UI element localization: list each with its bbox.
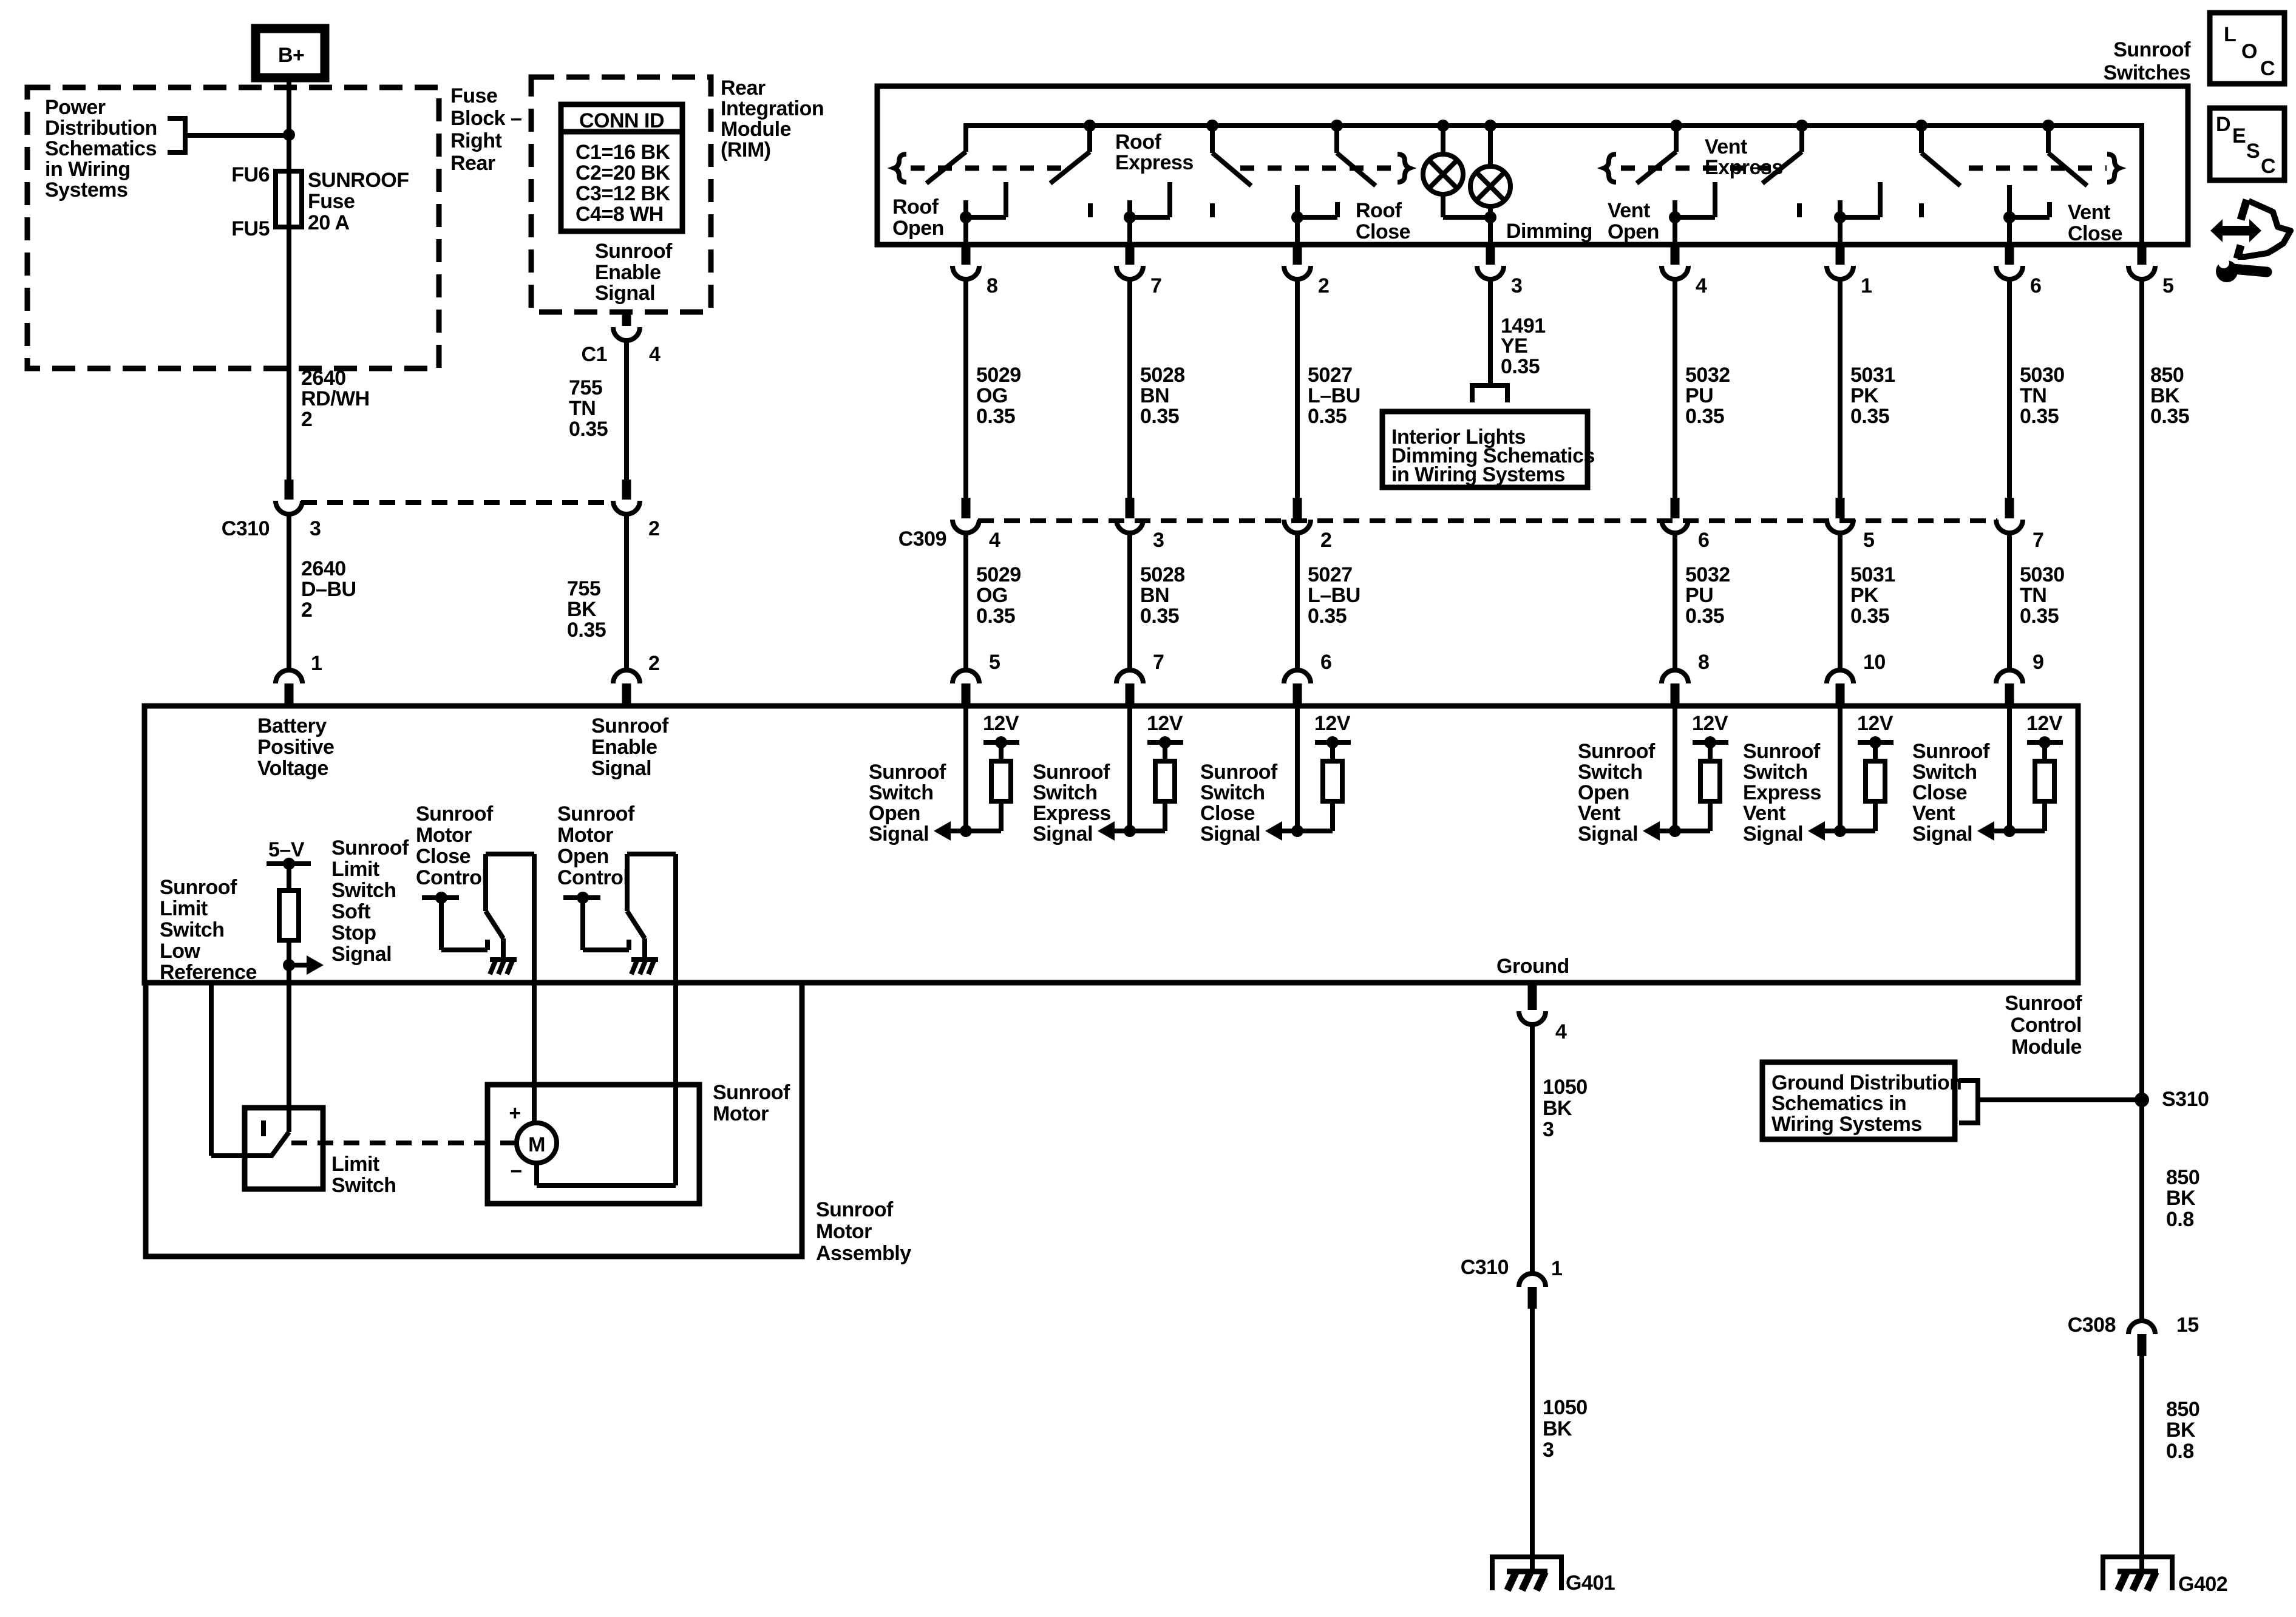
wire label 5032 PU 0.35 (lower) [1685, 563, 1730, 628]
svg-text:OG: OG [976, 584, 1008, 607]
contact Vent Open [1669, 182, 1715, 223]
pin number 5 below switch box [2162, 274, 2173, 297]
wire 2640 battery feed from B+ through fuse [287, 78, 291, 480]
junction dot Sunroof Switch Close Vent Signal [2003, 825, 2016, 837]
svg-text:Dimming: Dimming [1506, 220, 1592, 243]
svg-text:1: 1 [1551, 1257, 1562, 1280]
label Vent Open [1608, 199, 1659, 243]
pin number 2 at module enable input [648, 652, 659, 675]
connector sunroof switches pin 6 [1996, 245, 2023, 279]
5V rail [267, 858, 311, 890]
svg-text:3: 3 [310, 517, 321, 540]
label C310 [222, 517, 270, 540]
svg-text:in Wiring: in Wiring [45, 158, 131, 181]
svg-text:FU6: FU6 [231, 163, 270, 186]
connector C310 pin 3 [276, 480, 302, 514]
label 12V pull-up for Sunroof Switch Open Signal [983, 712, 1019, 735]
svg-text:Limit: Limit [331, 1153, 379, 1176]
svg-text:Enable: Enable [591, 736, 657, 759]
label Sunroof Switch Close Vent Signal [1912, 740, 1990, 846]
label C310 ground [1461, 1256, 1509, 1279]
label SUNROOF Fuse 20 A [308, 169, 409, 234]
wire to dimming lamp1 [1441, 126, 1445, 155]
svg-text:BN: BN [1140, 384, 1169, 407]
pin number 7 at C309 [2033, 529, 2043, 552]
contact Roof Express [1124, 182, 1170, 223]
pin number 5 at C309 [1863, 529, 1874, 552]
resistor pull-up for Sunroof Switch Close Signal [1323, 761, 1342, 801]
junction dot lamp2 tap [1484, 120, 1496, 132]
svg-text:Fuse: Fuse [450, 84, 497, 107]
svg-text:0.35: 0.35 [976, 605, 1015, 628]
svg-text:Signal: Signal [331, 943, 392, 966]
connector C310 pin 2 (755 wire) [613, 480, 640, 514]
wire 850 BK S310 to C308 [2139, 1100, 2144, 1320]
connector C309 pin 6 [1662, 498, 1688, 533]
svg-text:Limit: Limit [160, 897, 208, 920]
svg-text:0.8: 0.8 [2166, 1208, 2194, 1231]
connector module pin 10 [1827, 670, 1853, 706]
svg-text:6: 6 [1320, 651, 1331, 674]
svg-text:6: 6 [1698, 529, 1709, 552]
svg-text:8: 8 [987, 274, 997, 297]
resistor limit switch pull-up [279, 890, 299, 940]
wire label 2640 D-BU 2 [301, 557, 356, 622]
svg-text:2: 2 [301, 408, 312, 431]
pin number 9 at module [2033, 651, 2043, 674]
svg-text:Signal: Signal [595, 282, 655, 305]
wire soft stop to limit switch [287, 983, 291, 1132]
bracket ground distribution to S310 [1959, 1080, 2136, 1123]
svg-text:Right: Right [450, 129, 502, 152]
LOC reference box [2210, 13, 2284, 84]
svg-text:Close: Close [416, 845, 470, 868]
label Vent Express [1705, 135, 1783, 179]
svg-text:Power: Power [45, 96, 106, 119]
svg-text:Rear: Rear [450, 152, 495, 175]
svg-text:G401: G401 [1566, 1571, 1615, 1595]
12V rail for Sunroof Switch Open Vent Signal [1693, 736, 1728, 761]
svg-text:Express: Express [1743, 781, 1821, 804]
bracket to Power Distribution note [168, 118, 289, 152]
wire below lamp2 [1488, 205, 1493, 245]
driver Sunroof Motor Close Control [422, 854, 534, 958]
wire resistor to junction for Sunroof Switch Express Vent Signal [1825, 801, 1875, 831]
connector C309 pin 5 [1827, 498, 1853, 533]
svg-text:PU: PU [1685, 384, 1713, 407]
svg-text:755: 755 [569, 376, 602, 399]
ground G402 [2103, 1557, 2172, 1590]
12V rail for Sunroof Switch Express Vent Signal [1858, 736, 1894, 761]
connector module pin 5 [953, 670, 979, 706]
label plus [509, 1102, 520, 1125]
svg-text:Vent: Vent [1743, 802, 1785, 825]
svg-text:Vent: Vent [1578, 802, 1620, 825]
svg-text:Low: Low [160, 940, 201, 963]
svg-text:Systems: Systems [45, 178, 127, 202]
svg-text:O: O [2241, 40, 2257, 63]
wire Roof Close output inside box [1295, 217, 1300, 245]
label Sunroof Switch Express Vent Signal [1743, 740, 1821, 846]
svg-text:Sunroof: Sunroof [1912, 740, 1990, 763]
svg-text:5027: 5027 [1308, 364, 1353, 387]
svg-text:PK: PK [1850, 384, 1879, 407]
box Limit Switch [245, 1108, 323, 1189]
svg-text:Sunroof: Sunroof [1743, 740, 1821, 763]
connector sunroof switches pin 1 [1827, 245, 1853, 279]
svg-text:0.35: 0.35 [567, 619, 606, 642]
label Sunroof Switch Express Signal [1033, 761, 1111, 846]
motor M [517, 1123, 557, 1163]
svg-text:Sunroof: Sunroof [557, 802, 635, 825]
12V rail for Sunroof Switch Close Vent Signal [2027, 736, 2063, 761]
pin number 4 below switch box [1696, 274, 1707, 297]
svg-text:5032: 5032 [1685, 563, 1730, 586]
svg-text:12V: 12V [2026, 712, 2063, 735]
svg-text:Integration: Integration [721, 97, 824, 120]
wire resistor to junction for Sunroof Switch Close Signal [1282, 801, 1333, 831]
wire Vent Close output inside box [2007, 217, 2012, 245]
ground symbol motor close driver [490, 960, 517, 974]
svg-text:SUNROOF: SUNROOF [308, 169, 409, 192]
svg-text:4: 4 [1555, 1020, 1567, 1043]
pin number 4 at C309 [989, 529, 1000, 552]
svg-text:0.35: 0.35 [976, 405, 1015, 428]
svg-text:Switches: Switches [2104, 61, 2190, 84]
svg-text:Switch: Switch [160, 918, 225, 941]
svg-text:Ground Distribution: Ground Distribution [1771, 1071, 1961, 1094]
svg-text:Control: Control [416, 866, 487, 889]
svg-text:OG: OG [976, 384, 1008, 407]
arrow Sunroof Switch Open Signal [934, 821, 951, 841]
svg-text:5032: 5032 [1685, 364, 1730, 387]
svg-text:2: 2 [648, 652, 659, 675]
svg-text:5: 5 [989, 651, 1000, 674]
junction dot second Vent Close pivot [2042, 120, 2054, 132]
label Power Distribution Schematics in Wiring Systems [45, 96, 157, 202]
wire to dimming lamp2 [1488, 126, 1493, 168]
label C309 [898, 527, 946, 551]
dashed line connector row C309 [978, 518, 1997, 523]
svg-text:2: 2 [301, 598, 312, 622]
wire label 5030 TN 0.35 (upper) [2020, 364, 2065, 428]
label Roof Open [892, 195, 944, 240]
pin number 8 at module [1698, 651, 1709, 674]
svg-text:Open: Open [557, 845, 609, 868]
wire 850 BK C308 to G402 [2139, 1356, 2144, 1571]
dashed coupling line roof switches [911, 166, 1394, 171]
svg-text:Wiring Systems: Wiring Systems [1771, 1113, 1922, 1136]
svg-text:C3=12 BK: C3=12 BK [576, 182, 671, 205]
svg-text:4: 4 [1696, 274, 1707, 297]
svg-text:Module: Module [721, 118, 791, 141]
svg-text:Sunroof: Sunroof [331, 836, 409, 859]
svg-text:0.35: 0.35 [1501, 355, 1540, 378]
label Vent Close [2068, 201, 2122, 245]
pin number 6 below switch box [2030, 274, 2041, 297]
box Sunroof Control Module [144, 706, 2078, 983]
junction on battery feed wire [283, 129, 295, 141]
junction dot lamp1 tap [1437, 120, 1449, 132]
svg-text:Voltage: Voltage [257, 757, 328, 780]
label Sunroof Control Module [2005, 992, 2082, 1059]
wire 5028 BN segment to C309 [1127, 280, 1132, 498]
tick vent express position [1797, 203, 1802, 217]
svg-text:C: C [2261, 155, 2275, 178]
svg-text:Enable: Enable [595, 261, 661, 284]
svg-text:Signal: Signal [1200, 822, 1260, 846]
pin number 5 at module [989, 651, 1000, 674]
svg-text:850: 850 [2166, 1398, 2199, 1421]
wire below lamp1 [1443, 193, 1490, 217]
label Roof Close [1356, 199, 1410, 243]
svg-text:Signal: Signal [591, 757, 651, 780]
wire 5031 PK segment to C309 [1838, 280, 1843, 498]
wire label 1050 BK 3 (lower) [1543, 1396, 1588, 1462]
box Sunroof Switches [877, 86, 2188, 245]
label Sunroof Enable Signal (module) [591, 714, 669, 780]
pin number 4 at C1 [649, 343, 661, 366]
svg-text:RD/WH: RD/WH [301, 387, 370, 410]
tick roof close position [1210, 203, 1215, 217]
pin number 8 below switch box [987, 274, 997, 297]
svg-text:BK: BK [1543, 1417, 1572, 1440]
svg-text:Stop: Stop [331, 921, 376, 944]
connector C309 pin 3 [1116, 498, 1143, 533]
wire label 850 BK 0.8 (upper) [2166, 1166, 2199, 1231]
wire 5029 OG segment to C309 [963, 280, 968, 498]
contact Vent Close [2003, 185, 2050, 223]
wire label 850 BK 0.35 [2150, 364, 2189, 428]
svg-text:L–BU: L–BU [1308, 384, 1360, 407]
svg-text:0.35: 0.35 [1685, 605, 1724, 628]
svg-text:0.35: 0.35 [1140, 605, 1179, 628]
svg-text:Sunroof: Sunroof [869, 761, 946, 784]
svg-text:5–V: 5–V [268, 838, 305, 861]
wrench of hand icon [2216, 257, 2267, 282]
pin number 1 below switch box [1861, 274, 1872, 297]
arrow Sunroof Switch Close Signal [1265, 821, 1282, 841]
wire 5030 TN segment to C309 [2007, 280, 2012, 498]
svg-text:0.35: 0.35 [569, 418, 608, 441]
switch lever Vent Open pivot dot [1670, 120, 1682, 132]
svg-text:CONN ID: CONN ID [579, 109, 664, 132]
label Limit Switch [331, 1153, 396, 1197]
svg-text:Open: Open [1608, 220, 1659, 243]
svg-text:Rear: Rear [721, 76, 766, 100]
label Sunroof Switch Open Vent Signal [1578, 740, 1656, 846]
wire motor minus loop [537, 1163, 676, 1185]
svg-text:Motor: Motor [816, 1220, 872, 1243]
switch lever Roof Express [1050, 126, 1090, 183]
label C1 [582, 343, 607, 366]
svg-text:Sunroof: Sunroof [713, 1081, 790, 1104]
svg-text:Signal: Signal [1912, 822, 1972, 846]
svg-text:Control: Control [557, 866, 628, 889]
svg-text:TN: TN [2020, 384, 2046, 407]
wire Vent Open output inside box [1673, 217, 1677, 245]
svg-text:BK: BK [567, 598, 597, 621]
junction dot dimming output [1484, 211, 1496, 223]
wire segment into module pin 8 [1673, 534, 1677, 669]
wire limit switch soft stop [287, 940, 291, 983]
svg-text:5: 5 [2162, 274, 2173, 297]
svg-text:15: 15 [2176, 1314, 2199, 1337]
12V rail for Sunroof Switch Open Signal [983, 736, 1019, 761]
svg-text:4: 4 [989, 529, 1000, 552]
wire Sunroof Switch Express Signal inside module [1127, 706, 1132, 831]
wire label 5027 L-BU 0.35 (upper) [1308, 364, 1360, 428]
wire label 755 TN 0.35 [569, 376, 608, 441]
wire label 5032 PU 0.35 (upper) [1685, 364, 1730, 428]
label Rear Integration Module (RIM) [721, 76, 824, 161]
svg-text:M: M [528, 1133, 545, 1156]
wire resistor to junction for Sunroof Switch Close Vent Signal [1994, 801, 2045, 831]
box Ground Distribution Schematics in Wiring Systems [1762, 1062, 1961, 1139]
svg-text:5029: 5029 [976, 563, 1021, 586]
label FU5 [231, 217, 270, 240]
junction dot Vent Close pivot [1915, 120, 1927, 132]
svg-text:0.35: 0.35 [1308, 605, 1347, 628]
connector sunroof switches pin 8 [953, 245, 979, 279]
DESC reference box [2210, 108, 2284, 180]
svg-text:0.8: 0.8 [2166, 1440, 2194, 1463]
pin number 15 at C308 [2176, 1314, 2199, 1337]
wire label 5031 PK 0.35 (upper) [1850, 364, 1895, 428]
svg-text:Schematics: Schematics [45, 137, 157, 160]
svg-text:YE: YE [1501, 334, 1527, 358]
junction dot Roof Close pivot [1206, 120, 1218, 132]
svg-text:1050: 1050 [1543, 1396, 1588, 1419]
label 12V pull-up for Sunroof Switch Express Vent Signal [1857, 712, 1894, 735]
label FU6 [231, 163, 270, 186]
svg-text:20 A: 20 A [308, 211, 350, 234]
pin number 10 at module [1863, 651, 1886, 674]
wire label 1050 BK 3 (upper) [1543, 1076, 1588, 1141]
resistor pull-up for Sunroof Switch Open Vent Signal [1700, 761, 1720, 801]
svg-text:5030: 5030 [2020, 364, 2065, 387]
svg-text:Soft: Soft [331, 900, 370, 923]
ground G401 [1492, 1557, 1561, 1590]
pin number 2 at C310 755 wire [648, 517, 659, 540]
box Sunroof Motor Assembly [146, 983, 802, 1256]
junction dot Sunroof Switch Express Signal [1124, 825, 1136, 837]
svg-text:12V: 12V [1314, 712, 1351, 735]
svg-text:Switch: Switch [1200, 781, 1265, 804]
svg-text:3: 3 [1153, 529, 1164, 552]
label 12V pull-up for Sunroof Switch Open Vent Signal [1692, 712, 1728, 735]
pin number 3 at C310 [310, 517, 321, 540]
pin number 2 below switch box [1318, 274, 1329, 297]
junction dot second Roof Close pivot [1331, 120, 1343, 132]
connector C1 pin 4 on RIM [613, 312, 640, 341]
label minus [510, 1160, 521, 1183]
bus wire in switch box [966, 126, 2144, 245]
wire Sunroof Switch Express Vent Signal inside module [1838, 706, 1843, 831]
svg-text:BK: BK [2166, 1419, 2196, 1442]
connector sunroof switches pin 4 [1662, 245, 1688, 279]
wire segment into module pin 10 [1838, 534, 1843, 669]
svg-text:Sunroof: Sunroof [591, 714, 669, 737]
svg-text:Close: Close [1912, 781, 1967, 804]
label Sunroof Limit Switch Low Reference [160, 876, 257, 984]
off-page staple to interior lights schematic [1472, 385, 1507, 402]
adjustable component hand icon [2237, 200, 2291, 259]
wire 1050 BK upper segment [1530, 1026, 1535, 1272]
svg-text:Vent: Vent [1608, 199, 1650, 222]
connector C310 pin 1 [1519, 1273, 1546, 1309]
svg-text:Sunroof: Sunroof [160, 876, 237, 899]
wire label 850 BK 0.8 (lower) [2166, 1398, 2199, 1463]
tick in limit switch [261, 1120, 266, 1136]
svg-text:Express: Express [1115, 151, 1194, 174]
wire label 5027 L-BU 0.35 (lower) [1308, 563, 1360, 628]
svg-text:Switch: Switch [1578, 761, 1643, 784]
pin number 2 at C309 [1320, 529, 1331, 552]
svg-text:C2=20 BK: C2=20 BK [576, 161, 671, 185]
svg-text:Sunroof: Sunroof [816, 1198, 894, 1221]
junction dot Sunroof Switch Open Vent Signal [1669, 825, 1681, 837]
junction dot Sunroof Switch Express Vent Signal [1834, 825, 1846, 837]
svg-text:Switch: Switch [331, 879, 396, 902]
svg-text:12V: 12V [1147, 712, 1183, 735]
switch lever Vent Close [1921, 126, 1960, 186]
svg-text:Block –: Block – [450, 107, 521, 130]
connector sunroof switches pin 5 [2128, 245, 2155, 279]
switch lever Vent Express [1762, 126, 1802, 183]
label Sunroof Motor Open Control [557, 802, 635, 889]
label Sunroof Switch Close Signal [1200, 761, 1278, 846]
svg-text:Switch: Switch [331, 1174, 396, 1197]
svg-text:2: 2 [1318, 274, 1329, 297]
wire segment into module pin 7 [1127, 534, 1132, 669]
junction dot Vent Express pivot [1796, 120, 1808, 132]
brace left vent coupling [1604, 154, 1616, 182]
svg-text:2640: 2640 [301, 557, 346, 580]
svg-text:−: − [510, 1160, 521, 1183]
svg-text:Sunroof: Sunroof [595, 240, 673, 263]
svg-text:Distribution: Distribution [45, 117, 157, 140]
lamp dimming 1 [1423, 154, 1463, 194]
svg-text:Express: Express [1705, 156, 1783, 179]
resistor pull-up for Sunroof Switch Close Vent Signal [2035, 761, 2054, 801]
label Ground [1496, 955, 1569, 978]
svg-text:Ground: Ground [1496, 955, 1569, 978]
svg-text:5027: 5027 [1308, 563, 1353, 586]
svg-text:Fuse: Fuse [308, 190, 355, 213]
label Sunroof Enable Signal (RIM) [595, 240, 673, 305]
wire 1491 YE segment to interior lights [1488, 280, 1493, 385]
contact Roof Open [960, 182, 1006, 223]
svg-text:Assembly: Assembly [816, 1242, 911, 1265]
svg-text:1: 1 [1861, 274, 1872, 297]
svg-text:PK: PK [1850, 584, 1879, 607]
pin number 4 at module ground [1555, 1020, 1567, 1043]
svg-text:3: 3 [1543, 1439, 1554, 1462]
svg-text:E: E [2232, 124, 2246, 147]
svg-text:D–BU: D–BU [301, 578, 356, 601]
wire segment into module pin 9 [2007, 534, 2012, 669]
wire label 5031 PK 0.35 (lower) [1850, 563, 1895, 628]
pin number 7 at module [1153, 651, 1164, 674]
label Sunroof Motor Assembly [816, 1198, 911, 1265]
svg-text:Limit: Limit [331, 858, 379, 881]
wire Sunroof Switch Close Signal inside module [1295, 706, 1300, 831]
svg-text:+: + [509, 1102, 520, 1125]
label G401 [1566, 1571, 1615, 1595]
svg-text:Vent: Vent [1912, 802, 1955, 825]
box Interior Lights Dimming Schematics in Wiring Systems [1382, 412, 1595, 487]
